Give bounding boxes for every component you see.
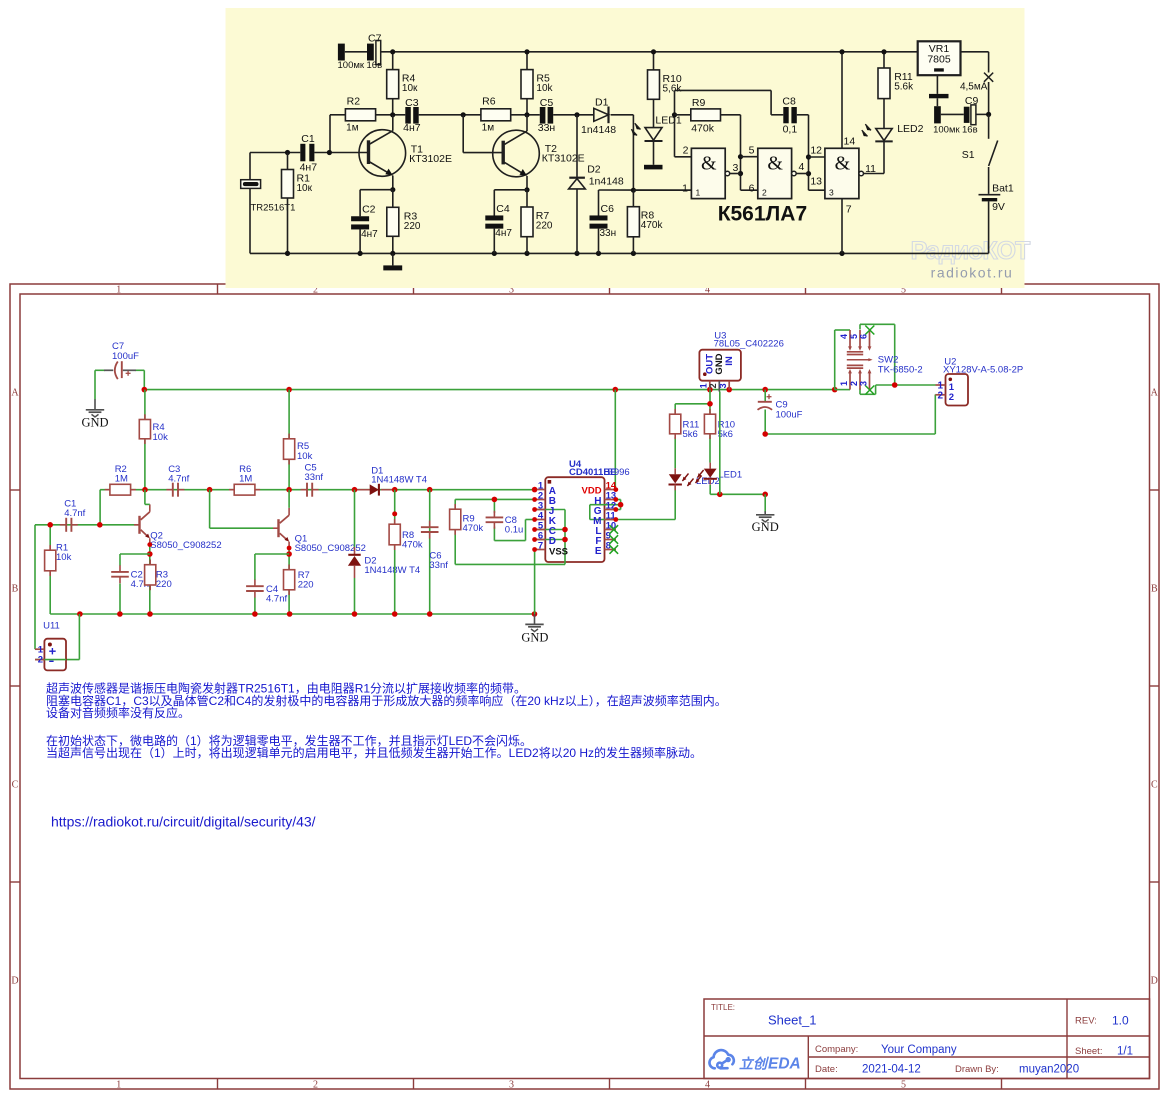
pin 10 (605, 529, 617, 531)
svg-text:C3: C3 (405, 97, 419, 109)
svg-text:2: 2 (38, 655, 43, 666)
wire base row T1 (250, 152, 300, 154)
ground (534, 614, 536, 624)
svg-text:10k: 10k (153, 432, 169, 443)
resistor R8 (394, 519, 396, 524)
no-connect flag (865, 386, 874, 395)
svg-text:C1: C1 (301, 133, 315, 145)
junction (707, 401, 713, 407)
wire to switch (961, 51, 989, 53)
svg-text:Sheet:: Sheet: (1075, 1046, 1102, 1057)
svg-text:33н: 33н (600, 228, 617, 239)
wire C9 bottom row (765, 433, 935, 435)
junction (524, 112, 529, 117)
pin 4 (535, 519, 546, 521)
svg-text:1: 1 (839, 381, 849, 386)
junction (832, 387, 838, 393)
junction (892, 382, 898, 388)
svg-text:220: 220 (298, 580, 314, 591)
junction (352, 611, 358, 617)
svg-text:U11: U11 (43, 620, 60, 631)
svg-text:D2: D2 (587, 164, 601, 176)
wire gate4 feedback (590, 504, 621, 506)
svg-text:5k6: 5k6 (683, 429, 698, 440)
scanned image overlap strip (226, 283, 1025, 288)
wire top rail (345, 51, 367, 53)
svg-text:Date:: Date: (815, 1064, 838, 1075)
sheet frame outer border (10, 284, 1159, 1089)
svg-text:100мк: 100мк (933, 125, 960, 136)
svg-text:2: 2 (313, 1079, 318, 1090)
junction (562, 527, 568, 533)
junction (562, 537, 568, 543)
title block (704, 999, 1150, 1079)
svg-text:TR2516T1: TR2516T1 (251, 203, 296, 214)
svg-text:3: 3 (718, 383, 728, 388)
junction (142, 387, 148, 393)
NAND gate 3 (825, 148, 859, 198)
svg-text:muyan2020: muyan2020 (1019, 1064, 1079, 1076)
svg-text:IN: IN (724, 356, 735, 366)
wire R1 column (287, 153, 289, 170)
junction (613, 487, 618, 492)
wire SW2 output loop (859, 324, 861, 329)
svg-text:GND: GND (81, 416, 108, 430)
junction (532, 527, 537, 532)
capacitor C6 (590, 215, 608, 220)
svg-text:TITLE:: TITLE: (711, 1003, 735, 1012)
junction (327, 150, 332, 155)
junction (524, 49, 529, 54)
junction (532, 507, 537, 512)
wire emitter Q2 (149, 545, 151, 614)
wire VSS pin7 (534, 550, 536, 615)
svg-text:VDD: VDD (582, 486, 602, 497)
svg-text:&: & (835, 153, 851, 175)
svg-text:TK-6850-2: TK-6850-2 (878, 365, 923, 376)
capacitor C5 (301, 489, 307, 491)
pin 2 (535, 499, 546, 501)
wire R10 column (653, 52, 655, 70)
svg-text:470k: 470k (402, 540, 423, 551)
frame column tick (217, 284, 219, 294)
regulator VR1 (918, 41, 961, 75)
resistor R9 (691, 109, 721, 121)
junction (574, 251, 579, 256)
svg-text:4,5мА: 4,5мА (960, 81, 988, 92)
break X mark (984, 73, 993, 82)
EasyEDA logo (709, 1050, 733, 1068)
wire U11 pin2 (35, 659, 79, 661)
svg-text:3: 3 (733, 162, 739, 174)
svg-text:D1: D1 (595, 96, 609, 108)
wire collector jog Q2 (144, 490, 146, 505)
junction (613, 507, 618, 512)
svg-text:A: A (1151, 388, 1159, 399)
svg-text:Company:: Company: (815, 1044, 858, 1055)
junction (207, 487, 213, 493)
svg-text:6: 6 (859, 334, 869, 339)
capacitor C4 (485, 215, 503, 220)
scanned schematic image background (226, 8, 1025, 288)
wire C8 to pin4 (494, 540, 525, 542)
svg-text:10к: 10к (297, 183, 313, 194)
svg-text:К561ЛА7: К561ЛА7 (718, 203, 807, 226)
svg-text:4.7nf: 4.7nf (64, 508, 85, 519)
svg-text:GND: GND (521, 631, 548, 645)
junction (717, 492, 723, 498)
capacitor C2 (119, 565, 121, 572)
junction (762, 492, 768, 498)
wire R9 bottom row (455, 563, 565, 565)
svg-text:radiokot.ru: radiokot.ru (931, 265, 1014, 281)
svg-text:4: 4 (799, 161, 805, 173)
wire main row (100, 489, 534, 491)
wire U11 pin1 column (34, 525, 36, 649)
resistor R6 (481, 109, 511, 121)
svg-text:1/1: 1/1 (1117, 1046, 1133, 1058)
svg-text:LED1: LED1 (655, 115, 681, 127)
svg-text:220: 220 (156, 579, 172, 590)
junction (532, 537, 537, 542)
frame column tick (805, 284, 807, 294)
svg-text:B: B (12, 584, 19, 595)
svg-text:D: D (1151, 976, 1158, 987)
svg-text:0.1u: 0.1u (505, 525, 524, 536)
wire R11 column (883, 52, 885, 68)
capacitor C6 (429, 521, 431, 528)
junction (147, 551, 153, 557)
junction (532, 497, 537, 502)
svg-text:14: 14 (844, 135, 856, 147)
junction (613, 517, 618, 522)
svg-text:5: 5 (849, 334, 859, 339)
resistor R6 (229, 489, 234, 491)
junction (762, 431, 768, 437)
resistor R8 (627, 207, 639, 237)
svg-text:2: 2 (683, 144, 689, 156)
resistor R3 (387, 207, 399, 236)
svg-text:33nf: 33nf (429, 560, 448, 571)
junction (286, 487, 292, 493)
svg-text:4: 4 (839, 334, 849, 339)
bottom rail (50, 613, 534, 615)
svg-text:10k: 10k (297, 451, 313, 462)
junction (613, 497, 618, 502)
svg-text:100uF: 100uF (776, 410, 803, 421)
pin 3 (535, 509, 546, 511)
frame column tick (413, 284, 415, 294)
junction (524, 187, 529, 192)
junction (672, 112, 677, 117)
svg-text:6: 6 (749, 182, 755, 194)
no-connect flag (610, 545, 619, 554)
ground (764, 511, 766, 514)
svg-text:LED2: LED2 (897, 123, 923, 135)
svg-text:11: 11 (865, 163, 876, 175)
junction (532, 547, 537, 552)
junction (286, 551, 292, 557)
wire gate1 output column (740, 115, 742, 190)
svg-text:1N4148W T4: 1N4148W T4 (371, 475, 427, 486)
diode D1 (594, 108, 609, 121)
frame row tick (10, 489, 20, 491)
svg-text:B: B (1151, 584, 1158, 595)
svg-text:D: D (549, 536, 556, 547)
svg-text:КТ3102Е: КТ3102Е (409, 153, 452, 165)
frame column tick (609, 284, 611, 294)
junction (285, 251, 290, 256)
svg-text:470k: 470k (463, 523, 484, 534)
wire emitter Q1 (288, 548, 290, 614)
junction (532, 487, 537, 492)
LED LED1 (645, 128, 662, 141)
transistor T2 (493, 130, 540, 177)
transistor T1 (359, 130, 406, 177)
junction (392, 611, 398, 617)
svg-text:33н: 33н (538, 122, 556, 134)
svg-text:设备对音频频率没有反应。: 设备对音频频率没有反应。 (46, 705, 190, 720)
connector U2 (946, 374, 969, 406)
junction (631, 188, 636, 193)
capacitor C1 (60, 524, 66, 526)
wire R11 top jog (674, 404, 676, 414)
svg-text:10k: 10k (56, 552, 72, 563)
svg-text:C4: C4 (496, 203, 510, 215)
wire R9 feedback loop (674, 90, 676, 156)
junction (524, 251, 529, 256)
resistor R11 (674, 409, 676, 414)
junction (77, 611, 83, 617)
wire top rail (144, 389, 834, 391)
svg-text:EDA: EDA (768, 1056, 801, 1073)
wire SW2 left loop (834, 330, 836, 390)
wire C2 branch (120, 553, 150, 555)
svg-text:7: 7 (846, 204, 852, 216)
resistor R5 (521, 70, 533, 99)
junction (532, 517, 537, 522)
capacitor C8 (493, 511, 495, 518)
svg-text:A: A (11, 388, 19, 399)
svg-text:1: 1 (116, 284, 121, 295)
wire R2 drop (99, 490, 101, 525)
transistor Q1 (273, 527, 279, 529)
junction (707, 387, 713, 393)
svg-text:C: C (12, 780, 19, 791)
svg-text:7: 7 (538, 541, 543, 552)
svg-text:5: 5 (901, 1079, 906, 1090)
resistor R2 (105, 489, 110, 491)
svg-text:12: 12 (810, 144, 822, 156)
wire VDD column (614, 390, 616, 490)
diode D2 (569, 177, 585, 179)
svg-text:R9: R9 (692, 97, 706, 109)
svg-text:220: 220 (536, 221, 553, 232)
wire D2 column (354, 490, 356, 547)
switch S1 (988, 114, 990, 138)
svg-text:33nf: 33nf (305, 472, 324, 483)
svg-text:3: 3 (509, 1079, 514, 1090)
svg-text:&: & (767, 153, 783, 175)
pin 8 (605, 549, 617, 551)
resistor R4 (387, 70, 399, 99)
svg-text:LED1: LED1 (718, 470, 742, 481)
NAND gate 2 (758, 148, 792, 198)
LED LED2 (674, 468, 676, 474)
svg-text:GND: GND (752, 520, 779, 534)
resistor R4 (144, 414, 146, 419)
junction (390, 251, 395, 256)
junction (738, 171, 743, 176)
svg-text:1.0: 1.0 (1112, 1014, 1129, 1028)
svg-text:4.7nf: 4.7nf (168, 474, 189, 485)
wire GND drop (764, 494, 766, 512)
junction (390, 49, 395, 54)
svg-text:100мк: 100мк (338, 60, 365, 71)
sheet frame inner border (20, 294, 1150, 1079)
svg-text:2: 2 (949, 392, 954, 403)
junction (142, 487, 148, 493)
wire base row Q2 (35, 524, 140, 526)
resistor R7 (288, 565, 290, 570)
ground (94, 399, 96, 409)
junction (881, 49, 886, 54)
junction (738, 154, 743, 159)
frame column tick (1001, 284, 1003, 294)
resistor R3 (149, 560, 151, 565)
LED LED1 (709, 463, 711, 469)
junction (532, 611, 538, 617)
svg-text:1n4148: 1n4148 (589, 176, 624, 188)
svg-text:S1: S1 (962, 149, 975, 161)
svg-text:2: 2 (849, 381, 859, 386)
svg-text:3: 3 (859, 381, 869, 386)
junction (651, 49, 656, 54)
svg-text:C2: C2 (362, 204, 376, 216)
junction (392, 511, 397, 516)
chassis ground bar (392, 253, 394, 265)
junction (613, 387, 619, 393)
junction (492, 497, 498, 503)
wire left column (249, 153, 251, 180)
svg-text:4н7: 4н7 (495, 228, 512, 239)
junction (839, 49, 844, 54)
svg-text:E: E (595, 546, 602, 557)
wire U3 GND pin (719, 392, 721, 495)
wire R1 column (49, 525, 51, 614)
wire signal row (330, 114, 345, 116)
NAND gate 1 (691, 148, 725, 198)
svg-text:4н7: 4н7 (361, 229, 378, 240)
wire Q1 base (209, 490, 211, 529)
wire LED2 column (674, 437, 676, 468)
svg-text:470k: 470k (691, 123, 715, 135)
svg-text:1M: 1M (115, 474, 128, 485)
pin 7 (535, 549, 546, 551)
frame row tick (10, 881, 20, 883)
svg-text:100uF: 100uF (112, 351, 139, 362)
junction (390, 187, 395, 192)
svg-text:https://radiokot.ru/circuit/di: https://radiokot.ru/circuit/digital/secu… (51, 814, 316, 830)
capacitor C2 (351, 216, 369, 221)
resistor R10 (648, 70, 660, 99)
capacitor C4 (254, 580, 256, 587)
svg-text:2: 2 (708, 383, 718, 388)
wire R4 column (144, 390, 146, 490)
capacitor C7 (polarized) (104, 369, 113, 371)
svg-text:1: 1 (682, 182, 688, 194)
wire pin13-12 jog (616, 499, 621, 501)
wire R9 top row (455, 498, 534, 500)
svg-text:C6: C6 (601, 203, 615, 215)
junction (596, 251, 601, 256)
junction (287, 611, 293, 617)
junction (117, 611, 123, 617)
transducer TR2516T1 (241, 180, 261, 189)
svg-text:16в: 16в (962, 125, 978, 136)
svg-text:当超声信号出现在（1）上时，将出现逻辑单元的启用电平，并且低: 当超声信号出现在（1）上时，将出现逻辑单元的启用电平，并且低频发生器开始工作。L… (46, 745, 702, 760)
wire J/C/D column (564, 510, 566, 565)
svg-text:E996: E996 (608, 467, 630, 478)
wire R10 column (709, 390, 711, 414)
capacitor C9 (936, 98, 938, 106)
svg-text:Bat1: Bat1 (992, 182, 1014, 194)
wire (392, 190, 394, 208)
svg-text:1N4148W T4: 1N4148W T4 (364, 565, 420, 576)
junction (358, 251, 363, 256)
wire pin 7 (841, 199, 843, 254)
svg-text:4: 4 (705, 1079, 710, 1090)
svg-text:C8: C8 (782, 95, 796, 107)
svg-text:13: 13 (810, 175, 822, 187)
svg-text:9V: 9V (992, 201, 1005, 213)
svg-text:РадиоКОТ: РадиоКОТ (911, 237, 1030, 265)
wire bottom rail (250, 252, 989, 254)
no-connect flag (610, 535, 619, 544)
svg-text:1: 1 (696, 188, 701, 198)
frame row tick (10, 685, 20, 687)
junction (461, 112, 466, 117)
wire pin11 row (590, 519, 675, 521)
svg-text:2021-04-12: 2021-04-12 (862, 1064, 921, 1076)
wire C4 branch (255, 553, 289, 555)
svg-text:1: 1 (699, 383, 709, 388)
capacitor C8 (783, 107, 788, 123)
wire collector Q1 (288, 490, 290, 508)
pin 14 (605, 489, 617, 491)
svg-text:R2: R2 (347, 95, 361, 107)
wire R6 left column (462, 115, 464, 153)
junction (390, 112, 395, 117)
IC U3 (699, 350, 741, 381)
resistor R1 (49, 545, 51, 550)
connector U11 (44, 639, 66, 671)
wire LED1 bottom row (709, 485, 711, 495)
svg-text:R6: R6 (482, 95, 496, 107)
junction (726, 387, 732, 393)
capacitor C8 (493, 499, 495, 513)
svg-text:XY128V-A-5.08-2P: XY128V-A-5.08-2P (943, 364, 1023, 375)
resistor R7 (521, 207, 533, 237)
diode D2 (354, 547, 356, 554)
wire (329, 115, 331, 153)
svg-text:VSS: VSS (549, 547, 568, 558)
capacitor C5 (540, 107, 546, 124)
junction (147, 542, 152, 547)
junction (762, 387, 768, 393)
svg-text:Drawn By:: Drawn By: (955, 1064, 999, 1075)
capacitor C7 (338, 44, 345, 61)
